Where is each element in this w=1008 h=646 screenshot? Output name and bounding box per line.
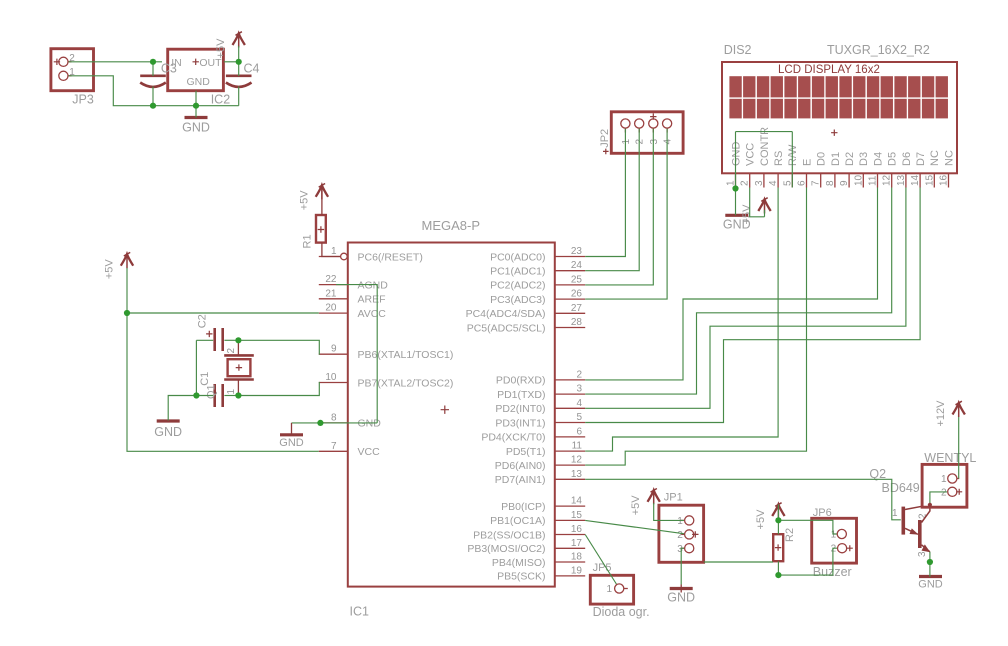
svg-text:PB3(MOSI/OC2): PB3(MOSI/OC2) [467,543,545,555]
svg-text:E: E [801,159,813,166]
svg-text:4: 4 [768,180,779,186]
svg-text:3: 3 [576,384,582,395]
svg-text:DIS2: DIS2 [724,43,752,57]
svg-text:PD6(AIN0): PD6(AIN0) [495,460,546,472]
svg-text:C2: C2 [197,314,209,328]
svg-text:JP1: JP1 [664,492,683,504]
svg-text:MEGA8-P: MEGA8-P [422,218,481,233]
svg-text:27: 27 [571,303,583,314]
svg-text:Dioda ogr.: Dioda ogr. [593,605,650,619]
svg-text:D5: D5 [887,152,899,166]
svg-text:2: 2 [831,544,837,555]
svg-text:PD3(INT1): PD3(INT1) [495,417,545,429]
svg-text:+5V: +5V [298,190,310,211]
svg-text:PC4(ADC4/SDA): PC4(ADC4/SDA) [466,308,546,320]
svg-text:PB2(SS/OC1B): PB2(SS/OC1B) [473,529,545,541]
svg-text:3: 3 [754,180,765,186]
svg-text:1: 1 [621,139,632,145]
svg-text:RS: RS [773,151,785,166]
svg-text:19: 19 [571,565,583,576]
svg-text:PB6(XTAL1/TOSC1): PB6(XTAL1/TOSC1) [358,349,454,361]
svg-text:VCC: VCC [358,446,381,458]
svg-text:13: 13 [896,174,907,186]
svg-text:CONTR: CONTR [759,127,771,166]
svg-text:PC6(/RESET): PC6(/RESET) [358,251,423,263]
svg-text:2: 2 [941,487,947,498]
svg-text:26: 26 [571,289,583,300]
svg-text:20: 20 [325,303,337,314]
svg-text:1: 1 [831,530,837,541]
svg-text:GND: GND [182,121,210,135]
svg-text:NC: NC [929,150,941,166]
svg-text:PD1(TXD): PD1(TXD) [497,389,545,401]
svg-text:2: 2 [226,348,237,354]
svg-text:GND: GND [918,579,943,591]
svg-text:PD2(INT0): PD2(INT0) [495,403,545,415]
svg-text:14: 14 [571,496,583,507]
svg-text:PB1(OC1A): PB1(OC1A) [490,515,545,527]
svg-text:IC2: IC2 [211,92,231,106]
svg-text:17: 17 [571,538,583,549]
svg-text:8: 8 [331,412,337,423]
svg-text:2: 2 [576,369,582,380]
svg-text:+12V: +12V [935,400,947,427]
svg-text:16: 16 [939,174,950,186]
svg-text:7: 7 [331,441,337,452]
svg-text:5: 5 [576,412,582,423]
svg-text:10: 10 [853,174,864,186]
svg-text:1: 1 [892,508,898,519]
svg-text:11: 11 [572,441,583,452]
svg-text:2: 2 [677,530,683,541]
svg-text:22: 22 [325,274,337,285]
svg-text:1: 1 [677,516,683,527]
svg-text:PB7(XTAL2/TOSC2): PB7(XTAL2/TOSC2) [358,377,454,389]
svg-text:15: 15 [571,510,583,521]
svg-text:R/W: R/W [787,144,799,166]
svg-text:10: 10 [325,372,337,383]
svg-text:PD4(XCK/T0): PD4(XCK/T0) [481,432,545,444]
svg-text:28: 28 [571,317,583,328]
svg-text:23: 23 [571,246,583,257]
svg-text:2: 2 [740,180,751,186]
svg-text:GND: GND [279,437,304,449]
svg-text:PC2(ADC2): PC2(ADC2) [490,280,545,292]
svg-text:12: 12 [882,174,893,186]
svg-text:3: 3 [677,544,683,555]
svg-text:+5V: +5V [630,495,642,516]
svg-text:+5V: +5V [741,204,753,225]
svg-text:PC5(ADC5/SCL): PC5(ADC5/SCL) [467,322,546,334]
svg-text:PB0(ICP): PB0(ICP) [501,501,545,513]
svg-text:C4: C4 [244,62,260,76]
svg-text:+5V: +5V [755,509,767,530]
svg-text:D6: D6 [901,152,913,166]
svg-text:Buzzer: Buzzer [813,565,852,579]
svg-text:BD649: BD649 [882,481,920,495]
svg-text:R1: R1 [302,234,314,248]
svg-text:GND: GND [667,591,695,605]
svg-text:AVCC: AVCC [358,308,387,320]
svg-text:GND: GND [154,425,182,439]
svg-text:7: 7 [811,180,822,186]
svg-text:4: 4 [663,139,674,145]
svg-text:8: 8 [825,180,836,186]
svg-text:12: 12 [571,455,583,466]
svg-text:15: 15 [924,174,935,186]
svg-text:LCD DISPLAY 16x2: LCD DISPLAY 16x2 [778,64,880,76]
svg-text:18: 18 [571,552,583,563]
svg-text:D7: D7 [915,152,927,166]
svg-text:WENTYL: WENTYL [924,451,976,465]
svg-text:VCC: VCC [745,143,757,166]
svg-text:PB4(MISO): PB4(MISO) [492,557,546,569]
svg-text:PD0(RXD): PD0(RXD) [496,375,546,387]
svg-text:5: 5 [782,180,793,186]
svg-text:1: 1 [331,246,337,257]
svg-text:14: 14 [910,174,921,186]
svg-text:1: 1 [606,584,612,595]
svg-text:1: 1 [726,180,737,186]
svg-text:AREF: AREF [358,294,386,306]
svg-text:GND: GND [730,142,742,167]
svg-text:PB5(SCK): PB5(SCK) [497,571,545,583]
svg-text:24: 24 [571,260,583,271]
svg-text:D2: D2 [844,152,856,166]
svg-text:R2: R2 [784,528,796,542]
svg-text:JP2: JP2 [599,129,611,148]
svg-text:25: 25 [571,274,583,285]
svg-text:C1: C1 [199,372,211,386]
svg-text:NC: NC [943,150,955,166]
svg-text:3: 3 [917,551,928,557]
svg-text:9: 9 [331,344,337,355]
svg-text:PD5(T1): PD5(T1) [506,446,546,458]
svg-text:AGND: AGND [358,279,389,291]
svg-text:3: 3 [649,139,660,145]
svg-text:Q1: Q1 [206,384,218,399]
svg-text:D1: D1 [830,152,842,166]
svg-text:GND: GND [187,76,211,88]
svg-text:JP3: JP3 [72,92,94,106]
svg-text:2: 2 [635,139,646,145]
svg-text:16: 16 [571,524,583,535]
svg-text:D0: D0 [816,152,828,166]
svg-text:1: 1 [226,389,237,395]
svg-text:6: 6 [576,426,582,437]
svg-text:6: 6 [797,180,808,186]
svg-text:4: 4 [576,398,582,409]
svg-text:IN: IN [171,57,182,69]
svg-text:TUXGR_16X2_R2: TUXGR_16X2_R2 [827,43,930,57]
svg-text:D3: D3 [858,152,870,166]
svg-text:+5V: +5V [103,259,115,280]
svg-text:11: 11 [868,175,879,186]
svg-text:1: 1 [941,474,947,485]
svg-text:PC3(ADC3): PC3(ADC3) [490,294,545,306]
svg-text:IC1: IC1 [350,605,370,619]
svg-text:PC1(ADC1): PC1(ADC1) [490,266,545,278]
svg-text:9: 9 [839,180,850,186]
svg-text:13: 13 [571,469,583,480]
svg-text:D4: D4 [872,152,884,166]
svg-text:PC0(ADC0): PC0(ADC0) [490,251,545,263]
svg-text:PD7(AIN1): PD7(AIN1) [495,474,546,486]
svg-text:+5V: +5V [215,38,227,59]
svg-text:21: 21 [325,288,337,299]
